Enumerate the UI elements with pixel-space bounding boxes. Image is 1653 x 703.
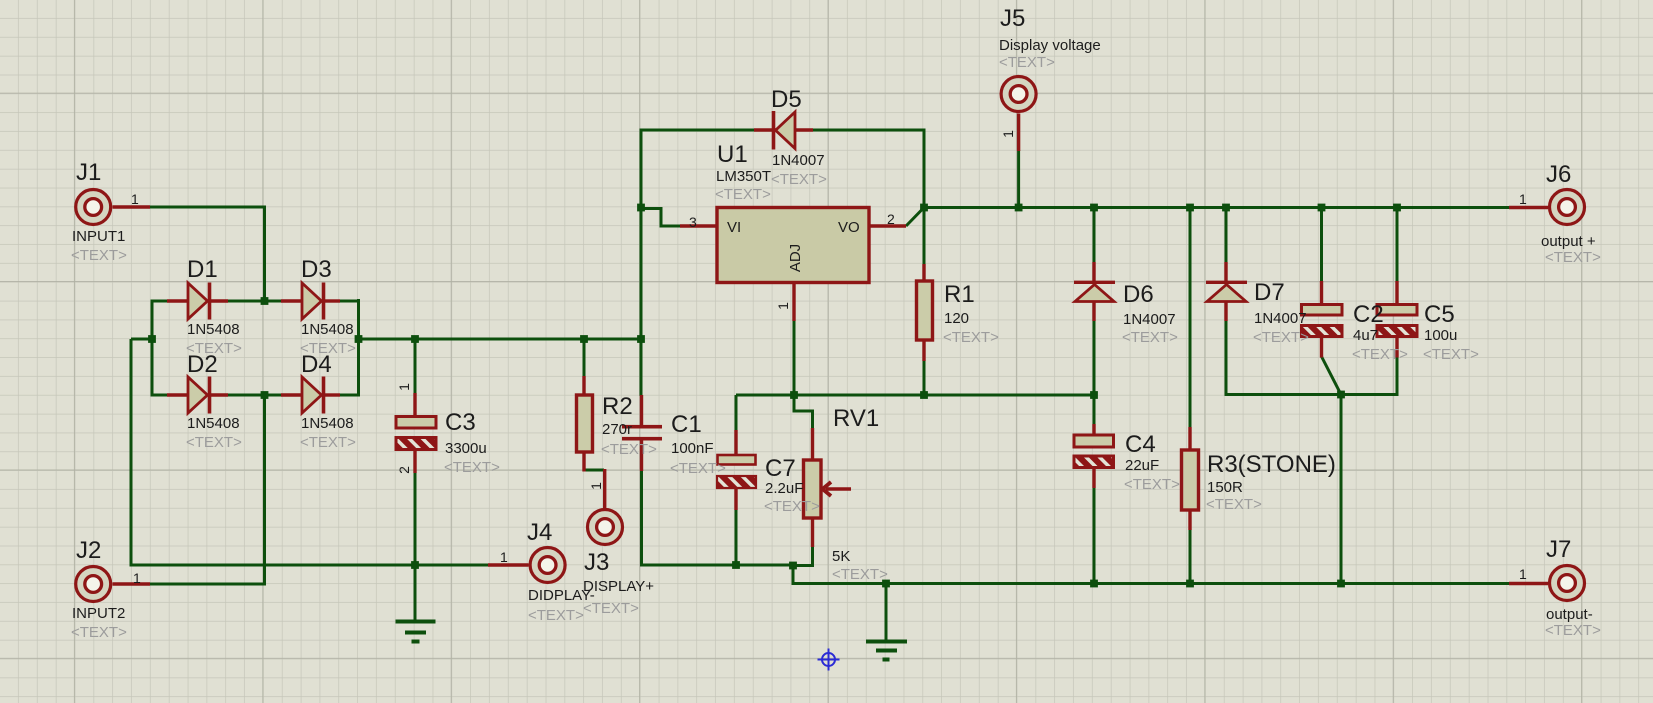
wire C7 top (735, 395, 738, 431)
diode D5 (754, 111, 813, 150)
svg-text:270r: 270r (602, 421, 632, 438)
svg-text:R3(STONE): R3(STONE) (1207, 451, 1336, 478)
svg-text:1N4007: 1N4007 (1254, 310, 1307, 327)
svg-text:<TEXT>: <TEXT> (71, 624, 127, 641)
label R2 (601, 393, 657, 458)
svg-text:1N4007: 1N4007 (1123, 311, 1176, 328)
junction C4 bottom (1090, 580, 1098, 588)
svg-text:<TEXT>: <TEXT> (186, 434, 242, 451)
potentiometer RV1 (804, 428, 852, 547)
junction bridge plus output (355, 335, 363, 343)
U1 pin 1 ADJ stub (792, 283, 795, 322)
connector J7 (1509, 566, 1585, 601)
svg-text:100u: 100u (1424, 327, 1457, 344)
junction R3 top (1186, 204, 1194, 212)
svg-text:<TEXT>: <TEXT> (1423, 346, 1479, 363)
wire ADJ pin lower (793, 320, 796, 395)
svg-text:1N5408: 1N5408 (187, 415, 240, 432)
svg-text:1: 1 (133, 570, 141, 586)
wire J2 to bridge AC node 2 (150, 395, 265, 584)
connector J6 (1509, 190, 1585, 225)
svg-text:<TEXT>: <TEXT> (715, 186, 771, 203)
svg-text:J2: J2 (76, 537, 101, 564)
svg-text:4u7: 4u7 (1353, 327, 1378, 344)
svg-text:1: 1 (1519, 566, 1527, 582)
wire bridge right bracket (357, 299, 360, 397)
wire J1 to bridge AC node (150, 207, 265, 299)
svg-text:1N5408: 1N5408 (301, 415, 354, 432)
diode D4 (281, 377, 340, 414)
capacitor C7 (717, 430, 756, 510)
svg-text:J5: J5 (1000, 5, 1025, 32)
label C1 (670, 411, 726, 477)
junction C3 bottom ground node (411, 561, 419, 569)
junction ADJ node (790, 391, 798, 399)
junction VO output node (920, 204, 928, 212)
svg-text:ADJ: ADJ (787, 244, 804, 272)
wire VI node up to D5 loop (641, 130, 755, 208)
junction D7 top (1222, 204, 1230, 212)
svg-text:<TEXT>: <TEXT> (1352, 346, 1408, 363)
svg-text:<TEXT>: <TEXT> (670, 460, 726, 477)
wire ground 2 drop (885, 584, 888, 642)
svg-text:<TEXT>: <TEXT> (1122, 329, 1178, 346)
label R3 (1206, 451, 1336, 513)
wire main rail bridge plus to C1 node (359, 338, 642, 341)
U1 pin 3 VI stub (680, 224, 717, 227)
label J5 (999, 5, 1101, 138)
label C5 (1423, 301, 1479, 363)
ground 1 (396, 622, 436, 642)
svg-text:C7: C7 (765, 455, 796, 482)
label C4 (1124, 431, 1180, 493)
svg-text:<TEXT>: <TEXT> (583, 600, 639, 617)
junction J5 tap (1015, 204, 1023, 212)
wire D5 anode to VO node (812, 130, 924, 208)
svg-text:<TEXT>: <TEXT> (832, 566, 888, 583)
capacitor C5 (1377, 281, 1417, 358)
wire D1 cathode to AC node (227, 300, 265, 303)
wire C4 top (1093, 395, 1096, 425)
wire C3 top pin upper (414, 339, 417, 395)
wire D7 bottom elbow to gnd-cap net (1226, 320, 1397, 395)
svg-text:1N5408: 1N5408 (301, 321, 354, 338)
junction R1 bottom (920, 391, 928, 399)
label J1 (71, 159, 139, 264)
wire D2 cathode to AC node 2 (227, 394, 265, 397)
wire left vertical drop to bottom net (131, 339, 415, 565)
wire R3 top (1189, 208, 1192, 429)
svg-text:R2: R2 (602, 393, 633, 420)
diode D1 (167, 283, 228, 320)
svg-text:<TEXT>: <TEXT> (444, 459, 500, 476)
capacitor C1 (622, 395, 662, 471)
junction RV1 bottom (789, 562, 797, 570)
connector J1 (76, 190, 150, 225)
label D2 (186, 351, 242, 451)
wire C1 top (640, 339, 643, 396)
wire C2 top (1320, 208, 1323, 283)
wire RV1 top jog (794, 395, 813, 429)
junction D6 top (1090, 204, 1098, 212)
resistor R2 (577, 376, 593, 472)
resistor R3 (1182, 427, 1199, 530)
label C3 (396, 383, 500, 476)
wire R2 top (583, 339, 586, 377)
label U1 (689, 141, 895, 310)
svg-text:120: 120 (944, 310, 969, 327)
svg-text:<TEXT>: <TEXT> (1545, 249, 1601, 266)
label D4 (300, 351, 356, 451)
wire ground node to J4 pin (415, 564, 489, 567)
origin marker (818, 649, 840, 671)
capacitor C3 (396, 393, 436, 473)
svg-text:1: 1 (1000, 130, 1016, 138)
wire RV1 bottom jog (793, 546, 813, 566)
svg-text:D6: D6 (1123, 281, 1154, 308)
svg-text:<TEXT>: <TEXT> (528, 607, 584, 624)
svg-text:C1: C1 (671, 411, 702, 438)
svg-text:<TEXT>: <TEXT> (1253, 329, 1309, 346)
svg-text:100nF: 100nF (671, 440, 714, 457)
ground 2 (866, 642, 907, 660)
svg-text:1: 1 (588, 482, 604, 490)
svg-text:5K: 5K (832, 548, 850, 565)
svg-text:U1: U1 (717, 141, 748, 168)
label D5 (771, 86, 827, 188)
label R1 (943, 281, 999, 346)
junction output minus tap (1337, 580, 1345, 588)
label D3 (300, 256, 356, 357)
label RV1 (832, 405, 888, 583)
svg-text:<TEXT>: <TEXT> (771, 171, 827, 188)
svg-text:1: 1 (775, 302, 791, 310)
wire VI node down to main rail (640, 208, 643, 340)
diode D6 (1074, 262, 1115, 321)
capacitor C2 (1302, 281, 1343, 358)
junction ground 2 tap (882, 580, 890, 588)
svg-text:D2: D2 (187, 351, 218, 378)
wire R3 bottom (1189, 529, 1192, 584)
diode D2 (167, 377, 228, 414)
svg-text:<TEXT>: <TEXT> (300, 434, 356, 451)
svg-text:22uF: 22uF (1125, 457, 1159, 474)
svg-text:<TEXT>: <TEXT> (71, 247, 127, 264)
svg-text:C3: C3 (445, 409, 476, 436)
junction VI node (637, 204, 645, 212)
wire D7 top (1225, 208, 1228, 263)
svg-text:J3: J3 (584, 549, 609, 576)
svg-text:J7: J7 (1546, 536, 1571, 563)
wire C1 bottom to mid ground rail (642, 470, 794, 565)
svg-text:VI: VI (727, 219, 741, 236)
svg-text:INPUT2: INPUT2 (72, 605, 125, 622)
svg-text:150R: 150R (1207, 479, 1243, 496)
svg-text:J1: J1 (76, 159, 101, 186)
label J6 (1519, 161, 1601, 266)
junction R2 top (580, 335, 588, 343)
svg-text:C5: C5 (1424, 301, 1455, 328)
connector J2 (76, 567, 150, 602)
label J4 (500, 519, 595, 624)
svg-text:1: 1 (500, 549, 508, 565)
svg-text:R1: R1 (944, 281, 975, 308)
junction bridge AC2 node (261, 391, 269, 399)
svg-text:C4: C4 (1125, 431, 1156, 458)
wire C2 bottom diagonal (1322, 357, 1342, 395)
wire left bracket tap to left drop (131, 338, 152, 341)
wire D6 top (1093, 208, 1096, 263)
svg-text:<TEXT>: <TEXT> (1545, 622, 1601, 639)
wire D4 cathode to right bracket (339, 394, 359, 397)
svg-text:D1: D1 (187, 256, 218, 283)
resistor R1 (917, 264, 933, 361)
svg-text:<TEXT>: <TEXT> (1124, 476, 1180, 493)
svg-text:2: 2 (396, 466, 412, 474)
diode D3 (281, 283, 340, 320)
svg-text:D5: D5 (771, 86, 802, 113)
wire D3 cathode to right bracket (339, 300, 359, 303)
svg-text:1N5408: 1N5408 (187, 321, 240, 338)
label D7 (1253, 279, 1309, 346)
wire mid ground jog down to bottom rail (793, 565, 1509, 584)
svg-text:J6: J6 (1546, 161, 1571, 188)
capacitor C4 (1074, 424, 1114, 488)
junction C2 top (1318, 204, 1326, 212)
junction C3 top (411, 335, 419, 343)
wire top output rail (924, 206, 1509, 209)
svg-text:1N4007: 1N4007 (772, 152, 825, 169)
label J3 (583, 482, 654, 617)
wire bridge left bracket (152, 301, 167, 395)
wire ground node to ground 1 (414, 565, 417, 621)
svg-text:RV1: RV1 (833, 405, 879, 432)
svg-text:<TEXT>: <TEXT> (601, 441, 657, 458)
wire C7 bottom (735, 508, 738, 565)
svg-text:output +: output + (1541, 233, 1596, 250)
label C2 (1352, 301, 1408, 363)
wire R2 bottom jog to J3 (584, 469, 604, 472)
svg-text:1: 1 (1519, 191, 1527, 207)
wire VO diagonal to output node (906, 208, 924, 227)
svg-text:1: 1 (131, 191, 139, 207)
svg-text:output-: output- (1546, 606, 1593, 623)
svg-text:Display voltage: Display voltage (999, 37, 1101, 54)
junction C2-C5 bottom net (1337, 391, 1345, 399)
wire ADJ rail (736, 394, 1094, 397)
label J2 (71, 537, 141, 641)
wire J5 drop (1017, 150, 1020, 208)
wire C3 bottom to ground node (414, 472, 417, 565)
svg-text:D7: D7 (1254, 279, 1285, 306)
wire C5 top (1396, 208, 1399, 283)
svg-text:D3: D3 (301, 256, 332, 283)
connector J4 (488, 548, 565, 583)
svg-text:3300u: 3300u (445, 440, 487, 457)
svg-text:D4: D4 (301, 351, 332, 378)
label J7 (1519, 536, 1601, 639)
connector J5 (1001, 77, 1036, 152)
junction C1 top / VI drop (637, 335, 645, 343)
wire D6 bottom (1093, 320, 1096, 395)
label D1 (186, 256, 242, 357)
svg-text:3: 3 (689, 214, 697, 230)
connector J3 (588, 469, 623, 545)
wire bridge AC node down D1-D3 junction to D3 stub (265, 300, 282, 303)
wire AC node 2 to D4 stub (265, 394, 282, 397)
svg-text:<TEXT>: <TEXT> (943, 329, 999, 346)
svg-text:INPUT1: INPUT1 (72, 228, 125, 245)
label D6 (1122, 281, 1178, 346)
junction bridge left bracket (148, 335, 156, 343)
wire VI node jog to pin 3 (641, 209, 681, 227)
svg-text:2.2uF: 2.2uF (765, 480, 803, 497)
svg-text:<TEXT>: <TEXT> (999, 54, 1055, 71)
svg-text:LM350T: LM350T (716, 168, 771, 185)
wire C4 bottom (1093, 467, 1096, 584)
wire R1 top (923, 208, 926, 266)
svg-text:VO: VO (838, 219, 860, 236)
svg-text:1: 1 (396, 383, 412, 391)
wire R1 bottom (923, 360, 926, 395)
junction C5 top (1393, 204, 1401, 212)
label C7 (764, 455, 820, 515)
svg-text:2: 2 (887, 211, 895, 227)
svg-text:J4: J4 (527, 519, 552, 546)
wire cap net drop to bottom rail (1340, 395, 1343, 584)
svg-text:<TEXT>: <TEXT> (764, 498, 820, 515)
U1 pin 2 VO stub (869, 224, 906, 227)
regulator U1 body (717, 208, 869, 283)
svg-text:<TEXT>: <TEXT> (1206, 496, 1262, 513)
diode D7 (1206, 262, 1247, 321)
junction D6 bottom / C4 top (1090, 391, 1098, 399)
junction R3 bottom (1186, 580, 1194, 588)
junction bridge AC1 node (261, 297, 269, 305)
svg-text:DISPLAY+: DISPLAY+ (583, 578, 654, 595)
svg-text:C2: C2 (1353, 301, 1384, 328)
junction C7 bottom (732, 561, 740, 569)
